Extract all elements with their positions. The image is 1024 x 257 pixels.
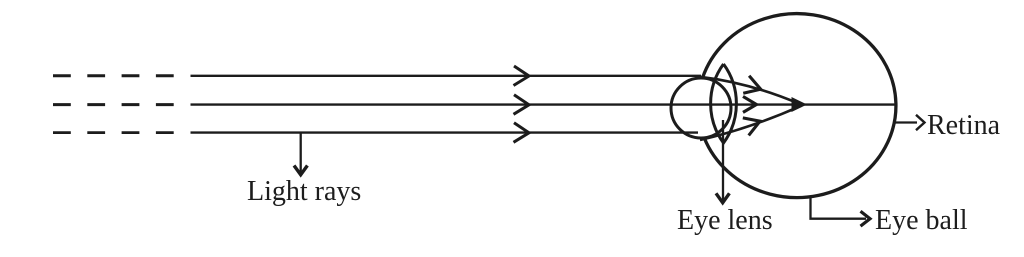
svg-text:Retina: Retina — [927, 110, 1001, 141]
leader arrow for Eye lens label — [722, 120, 724, 201]
middle light ray / optical axis (solid, through eye to retina) — [191, 103, 897, 105]
eyeball outline (ellipse with gap at cornea) — [703, 14, 896, 198]
arrowhead on top ray — [514, 66, 530, 86]
svg-text:Eye ball: Eye ball — [875, 205, 968, 236]
filled arrowhead at focal point on axis — [792, 97, 808, 112]
svg-text:Light rays: Light rays — [247, 176, 361, 207]
dashed incoming segment of middle light ray — [53, 103, 174, 106]
leader elbow arrow for Eye ball label — [811, 197, 867, 219]
refracted top ray converging to focus — [700, 77, 801, 105]
arrowhead on middle ray — [514, 95, 530, 115]
arrowhead on refracted top ray — [743, 76, 763, 98]
dashed incoming segment of top light ray — [53, 74, 174, 77]
arrowhead on bottom ray — [514, 123, 530, 143]
arrowhead on middle ray inside eye — [743, 96, 757, 112]
eye lens (biconvex) — [711, 64, 737, 143]
refracted bottom ray converging to focus — [700, 106, 801, 140]
top light ray (solid) — [191, 75, 702, 77]
arrowhead on refracted bottom ray — [742, 113, 763, 136]
dashed incoming segment of bottom light ray — [53, 131, 174, 134]
cornea circle — [671, 78, 731, 138]
leader arrow for Retina label — [895, 121, 917, 123]
leader arrow for Light rays label — [300, 134, 302, 173]
bottom light ray (solid) — [191, 131, 699, 133]
svg-text:Eye lens: Eye lens — [677, 205, 773, 236]
